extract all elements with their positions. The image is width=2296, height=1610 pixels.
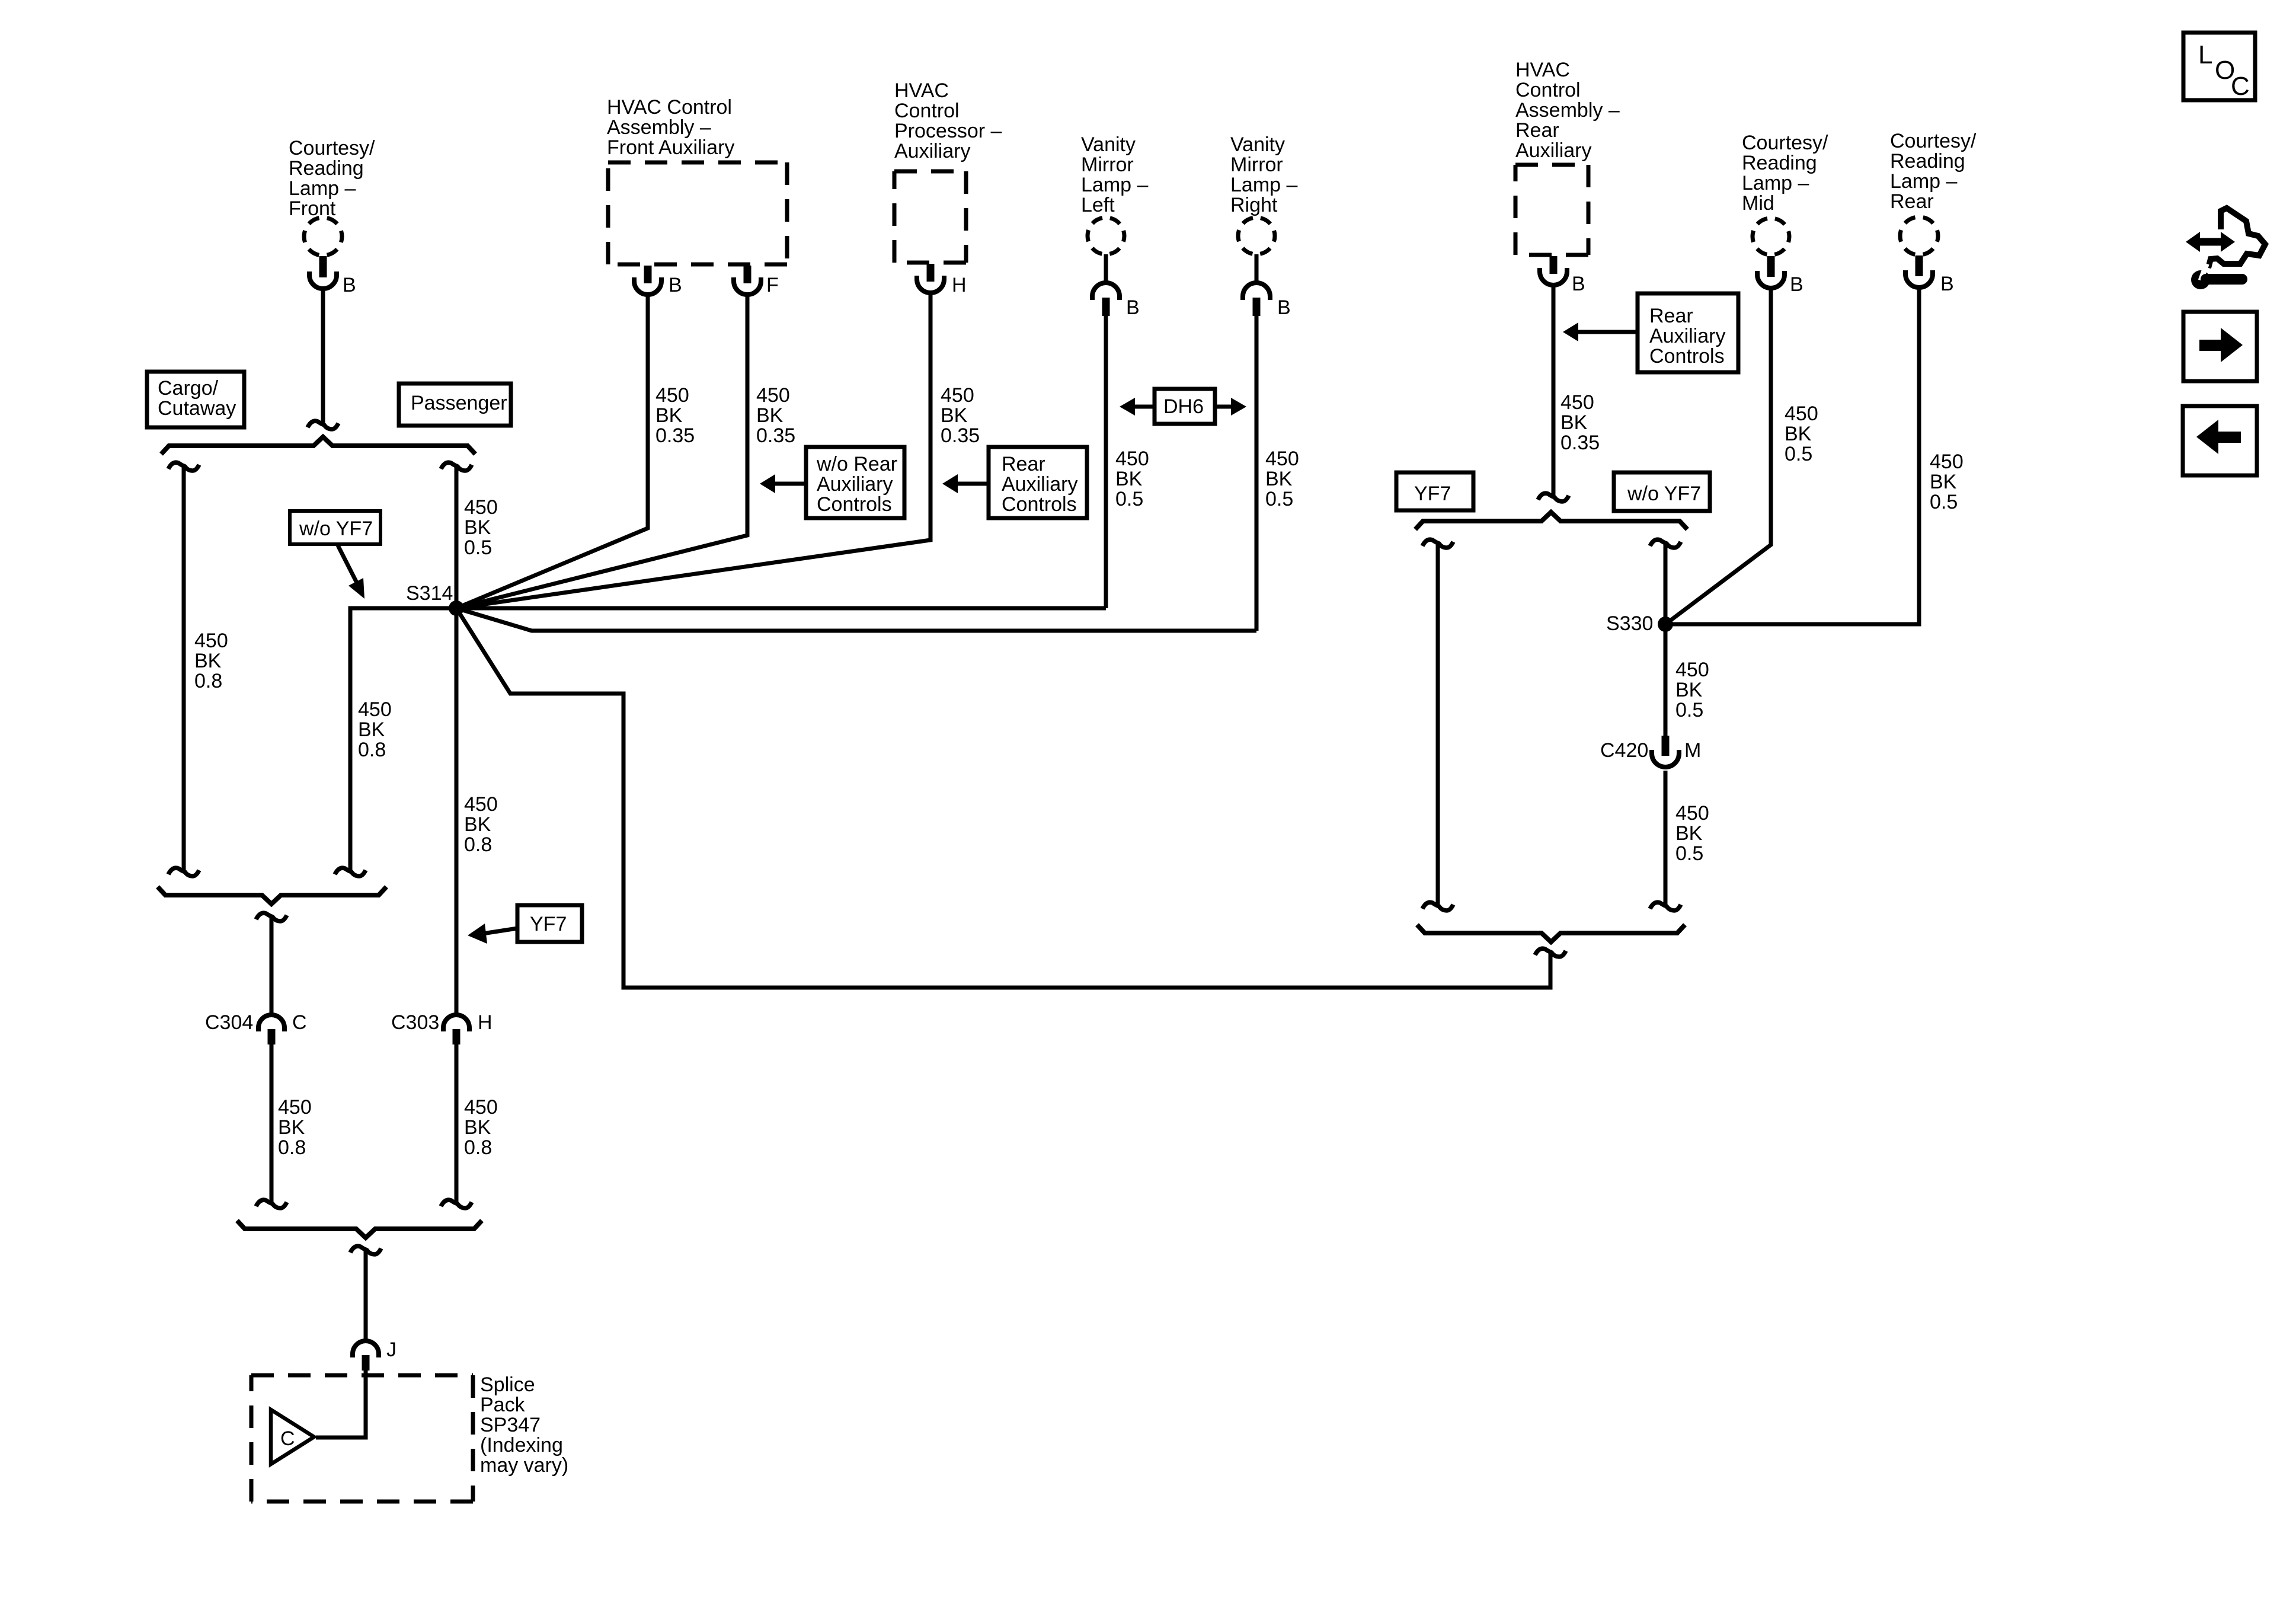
wire: HVAC front aux F to S314 <box>456 295 747 608</box>
component box: HVAC Control Assembly - Rear Auxiliary (dashed) <box>1515 163 1588 167</box>
wire: courtesy mid to S330 <box>1665 289 1771 624</box>
svg-text:0.8: 0.8 <box>278 1136 306 1159</box>
svg-text:Auxiliary: Auxiliary <box>894 140 970 162</box>
svg-text:Left: Left <box>1081 194 1115 216</box>
svg-text:B: B <box>343 274 356 296</box>
svg-text:Controls: Controls <box>1002 493 1077 516</box>
svg-text:0.8: 0.8 <box>464 1136 492 1159</box>
svg-text:C: C <box>280 1427 295 1450</box>
svg-text:Courtesy/: Courtesy/ <box>1742 132 1828 154</box>
option brace (Cargo/Cutaway | Passenger) <box>161 437 475 454</box>
wire hook (YF7 branch top) <box>1422 539 1453 548</box>
svg-text:Pack: Pack <box>480 1394 526 1416</box>
splice pack internal splice (triangle C) <box>271 1410 314 1464</box>
wire: S314 to vanity right <box>456 608 1256 631</box>
wire hook (C303 wire bottom) <box>441 1200 472 1208</box>
svg-text:YF7: YF7 <box>1414 483 1451 505</box>
svg-text:Courtesy/: Courtesy/ <box>289 137 375 159</box>
svg-text:450: 450 <box>464 793 498 816</box>
svg-text:Courtesy/: Courtesy/ <box>1890 130 1977 152</box>
svg-text:w/o Rear: w/o Rear <box>816 453 897 475</box>
option brace (YF7 | w/o YF7) <box>1415 512 1687 529</box>
svg-text:BK: BK <box>194 650 222 672</box>
svg-text:Processor –: Processor – <box>894 120 1002 142</box>
callout arrow DH6 left <box>1120 398 1135 416</box>
callout arrow: YF7 to C303 wire <box>479 928 517 934</box>
wire: HVAC processor H to S314 <box>456 293 930 608</box>
svg-text:YF7: YF7 <box>530 913 567 935</box>
svg-text:Lamp –: Lamp – <box>289 177 356 200</box>
svg-text:Assembly –: Assembly – <box>607 116 711 139</box>
svg-text:Control: Control <box>894 100 960 122</box>
connector pin B of front lamp <box>319 256 327 277</box>
connector pin B (HVAC rear aux) <box>1550 256 1558 274</box>
wire: C420 down <box>1664 771 1668 905</box>
connector pin H (HVAC processor) <box>927 264 935 282</box>
svg-text:0.8: 0.8 <box>464 833 492 856</box>
svg-text:0.5: 0.5 <box>1675 699 1703 721</box>
svg-text:HVAC: HVAC <box>894 79 949 102</box>
icon: vehicle outline with double arrow and wrench <box>2186 232 2200 252</box>
merge brace (rear section) <box>1417 925 1685 942</box>
svg-text:Rear: Rear <box>1515 119 1559 142</box>
svg-text:SP347: SP347 <box>480 1414 541 1436</box>
wire: S314 to vanity left <box>456 606 1106 611</box>
option box: YF7 (right) <box>1396 472 1473 510</box>
svg-text:Vanity: Vanity <box>1230 133 1285 156</box>
wire: Passenger branch vertical through S314 to C303 <box>455 467 459 1015</box>
svg-text:H: H <box>478 1011 493 1034</box>
svg-text:Lamp –: Lamp – <box>1890 170 1957 193</box>
wire: C303 down <box>455 1044 459 1202</box>
svg-text:BK: BK <box>1930 471 1957 493</box>
svg-text:BK: BK <box>1675 822 1703 845</box>
svg-text:Lamp –: Lamp – <box>1742 172 1809 194</box>
svg-text:BK: BK <box>358 718 385 741</box>
svg-text:BK: BK <box>655 404 683 427</box>
icon box: arrow right <box>2183 312 2257 381</box>
svg-text:450: 450 <box>1785 402 1818 425</box>
svg-text:Control: Control <box>1515 79 1581 101</box>
wire: vanity left lamp stub <box>1104 254 1108 284</box>
wire hook (Cargo branch bottom) <box>168 868 199 876</box>
svg-text:w/o YF7: w/o YF7 <box>1627 483 1701 505</box>
svg-text:450: 450 <box>358 698 392 721</box>
svg-text:450: 450 <box>1675 802 1709 825</box>
svg-text:C: C <box>292 1011 307 1034</box>
svg-text:450: 450 <box>1930 451 1964 473</box>
lamp: Vanity Mirror Lamp - Right (dashed circle) <box>1238 218 1275 254</box>
svg-text:Auxiliary: Auxiliary <box>1515 139 1591 162</box>
lamp: Courtesy/Reading Lamp - Front (dashed circle) <box>304 218 342 255</box>
wire hook (w/o YF7 branch bottom) <box>335 868 366 876</box>
svg-text:B: B <box>1277 296 1291 319</box>
svg-text:Lamp –: Lamp – <box>1081 174 1148 196</box>
option box: Cargo/Cutaway <box>147 372 244 427</box>
wire: Cargo branch vertical <box>182 467 186 870</box>
wire: vanity right lamp stub <box>1255 254 1259 284</box>
callout box: w/o Rear Auxiliary Controls <box>806 447 904 518</box>
svg-text:0.5: 0.5 <box>1930 491 1958 513</box>
svg-text:Vanity: Vanity <box>1081 133 1136 156</box>
svg-text:HVAC: HVAC <box>1515 59 1570 81</box>
svg-text:C420: C420 <box>1600 739 1648 762</box>
option box: Passenger <box>399 384 511 426</box>
svg-text:Cutaway: Cutaway <box>158 397 236 420</box>
svg-text:0.5: 0.5 <box>1785 443 1812 465</box>
connector C420 (inline) <box>1662 736 1670 756</box>
wire: HVAC rear aux B down to option brace <box>1552 285 1556 496</box>
wire: S314 long run to rear section merge brace <box>456 608 1550 988</box>
connector C304 (inline) <box>258 1015 284 1031</box>
wire: HVAC front aux B to S314 <box>456 295 648 608</box>
svg-text:Controls: Controls <box>1649 345 1725 368</box>
wire hook (w/o YF7 branch top) <box>1650 539 1681 548</box>
connector pin B (HVAC front aux) <box>644 266 652 283</box>
svg-text:BK: BK <box>941 404 968 427</box>
svg-text:Right: Right <box>1230 194 1278 216</box>
svg-text:B: B <box>1126 296 1140 319</box>
svg-text:(Indexing: (Indexing <box>480 1434 563 1456</box>
svg-text:0.8: 0.8 <box>194 670 222 692</box>
wire: w/o YF7 branch through S330 to C420 <box>1664 544 1668 736</box>
svg-text:Reading: Reading <box>1742 152 1817 174</box>
svg-text:B: B <box>1790 273 1803 296</box>
svg-text:BK: BK <box>278 1116 305 1139</box>
callout box: Rear Auxiliary Controls (right) <box>1638 293 1738 372</box>
wire hook below merge brace (J wire top) <box>350 1246 381 1254</box>
merge brace above C304 <box>158 887 386 904</box>
svg-text:B: B <box>1940 273 1954 295</box>
svg-text:BK: BK <box>1115 468 1143 490</box>
svg-text:0.35: 0.35 <box>655 424 695 447</box>
svg-text:0.35: 0.35 <box>941 424 980 447</box>
connector B (vanity left, inline style) <box>1092 283 1120 300</box>
callout arrow: Rear Auxiliary Controls <box>942 474 958 493</box>
splice S330 (junction dot) <box>1658 616 1673 632</box>
option box: w/o YF7 (right) <box>1614 472 1710 511</box>
svg-text:Reading: Reading <box>1890 150 1965 172</box>
svg-text:0.5: 0.5 <box>1265 488 1293 510</box>
svg-text:BK: BK <box>464 516 491 539</box>
svg-text:450: 450 <box>941 384 974 407</box>
wire: vanity right down <box>1255 316 1259 631</box>
svg-text:S314: S314 <box>406 582 453 605</box>
svg-text:Rear: Rear <box>1649 305 1693 327</box>
svg-text:Cargo/: Cargo/ <box>158 377 219 400</box>
svg-text:Mirror: Mirror <box>1230 154 1283 176</box>
svg-text:B: B <box>1572 273 1585 295</box>
svg-text:Auxiliary: Auxiliary <box>1002 473 1077 496</box>
svg-text:BK: BK <box>464 1116 491 1139</box>
svg-text:0.35: 0.35 <box>756 424 795 447</box>
connector J (inline) <box>353 1341 379 1357</box>
wire hook (YF7 branch bottom) <box>1422 902 1453 911</box>
wire: merge brace to C304 <box>270 918 274 1015</box>
svg-text:BK: BK <box>1560 411 1588 434</box>
wire: vanity left to S314 <box>1104 316 1108 608</box>
svg-text:Lamp –: Lamp – <box>1230 174 1297 196</box>
svg-text:H: H <box>952 274 967 296</box>
svg-text:BK: BK <box>756 404 784 427</box>
lamp: Vanity Mirror Lamp - Left (dashed circle) <box>1088 218 1124 254</box>
wire hook (Cargo branch top) <box>168 462 199 471</box>
wire: front lamp B down to option brace <box>321 289 325 423</box>
svg-text:BK: BK <box>1675 679 1703 701</box>
wire: J into splice pack <box>316 1371 366 1437</box>
wire hook (C304 wire bottom) <box>256 1200 287 1208</box>
wire: S314 left then down (w/o YF7 branch) <box>350 608 456 870</box>
svg-text:Mid: Mid <box>1742 192 1774 215</box>
svg-text:450: 450 <box>464 1096 498 1119</box>
svg-text:C304: C304 <box>205 1011 253 1034</box>
icon box: LOC <box>2183 33 2255 100</box>
svg-text:450: 450 <box>1265 448 1299 470</box>
svg-text:Rear: Rear <box>1002 453 1045 475</box>
svg-text:Auxiliary: Auxiliary <box>1649 325 1725 347</box>
svg-text:M: M <box>1684 739 1701 762</box>
svg-text:C: C <box>2231 72 2250 101</box>
svg-text:Controls: Controls <box>817 493 892 516</box>
svg-text:450: 450 <box>756 384 790 407</box>
svg-text:450: 450 <box>464 496 498 519</box>
svg-text:B: B <box>669 274 682 296</box>
svg-text:0.5: 0.5 <box>1115 488 1143 510</box>
svg-text:Mirror: Mirror <box>1081 154 1134 176</box>
callout arrow: w/o YF7 to S314 <box>338 545 357 583</box>
svg-text:BK: BK <box>1265 468 1293 490</box>
wire hook (Passenger branch top) <box>441 462 472 471</box>
svg-text:Reading: Reading <box>289 157 364 180</box>
svg-text:0.5: 0.5 <box>464 536 492 559</box>
svg-text:0.5: 0.5 <box>1675 842 1703 865</box>
connector C303 (inline) <box>443 1015 469 1031</box>
svg-text:BK: BK <box>1785 423 1812 445</box>
lamp: Courtesy/Reading Lamp - Rear (dashed circle) <box>1900 217 1938 255</box>
splice S314 (junction dot) <box>449 600 464 616</box>
lamp: Courtesy/Reading Lamp - Mid (dashed circle) <box>1753 218 1789 255</box>
svg-text:S330: S330 <box>1606 612 1653 635</box>
wire: C304 down <box>270 1044 274 1202</box>
wire: YF7 branch vertical <box>1436 544 1440 905</box>
svg-text:C303: C303 <box>391 1011 439 1034</box>
svg-text:Passenger: Passenger <box>411 392 507 414</box>
svg-text:450: 450 <box>1115 448 1149 470</box>
wire hook (long run at rear merge brace) <box>1535 948 1566 957</box>
svg-text:450: 450 <box>655 384 689 407</box>
svg-text:Assembly –: Assembly – <box>1515 99 1620 122</box>
connector pin B (courtesy rear) <box>1916 255 1923 276</box>
callout box: Rear Auxiliary Controls <box>989 447 1087 518</box>
svg-text:450: 450 <box>1675 659 1709 681</box>
callout arrow: w/o Rear Auxiliary Controls <box>760 474 775 493</box>
svg-text:Rear: Rear <box>1890 190 1934 213</box>
connector B (vanity right, inline style) <box>1243 283 1270 300</box>
connector pin B (courtesy mid) <box>1767 256 1775 277</box>
wire: merge brace to J <box>364 1251 368 1341</box>
callout box: w/o YF7 <box>290 511 380 544</box>
svg-text:Splice: Splice <box>480 1373 535 1396</box>
svg-text:J: J <box>386 1339 396 1361</box>
wire: courtesy rear to S330 <box>1665 288 1919 624</box>
wire hook below merge brace (C304 wire top) <box>256 913 287 921</box>
svg-text:0.8: 0.8 <box>358 739 386 761</box>
component box: HVAC Control Assembly - Front Auxiliary (dashed) <box>608 161 787 165</box>
svg-text:Front Auxiliary: Front Auxiliary <box>607 136 734 159</box>
wire hook (w/o YF7 branch bottom) <box>1650 902 1681 911</box>
callout arrow: Rear Auxiliary Controls (right) <box>1563 322 1578 341</box>
svg-text:450: 450 <box>1560 391 1594 414</box>
svg-text:450: 450 <box>194 630 228 652</box>
callout arrow DH6 right <box>1231 398 1246 416</box>
component box: HVAC Control Processor - Auxiliary (dashed) <box>894 170 966 174</box>
wire hook at option brace centre <box>308 421 338 429</box>
connector pin F (HVAC front aux) <box>744 266 752 283</box>
svg-text:may vary): may vary) <box>480 1454 568 1477</box>
svg-text:w/o YF7: w/o YF7 <box>299 517 373 540</box>
svg-text:DH6: DH6 <box>1163 395 1204 418</box>
wire hook at rear option brace centre <box>1538 493 1569 501</box>
merge brace above splice pack <box>237 1221 482 1238</box>
icon box: arrow left <box>2183 406 2257 475</box>
svg-text:F: F <box>766 274 779 296</box>
svg-text:Auxiliary: Auxiliary <box>817 473 893 496</box>
svg-text:BK: BK <box>464 813 491 836</box>
callout box: DH6 <box>1155 389 1215 424</box>
svg-text:450: 450 <box>278 1096 312 1119</box>
svg-text:0.35: 0.35 <box>1560 432 1600 454</box>
splice pack SP347 (dashed box) <box>251 1373 473 1378</box>
svg-text:HVAC Control: HVAC Control <box>607 96 732 119</box>
svg-text:L: L <box>2198 40 2212 69</box>
callout box: YF7 <box>517 905 582 942</box>
